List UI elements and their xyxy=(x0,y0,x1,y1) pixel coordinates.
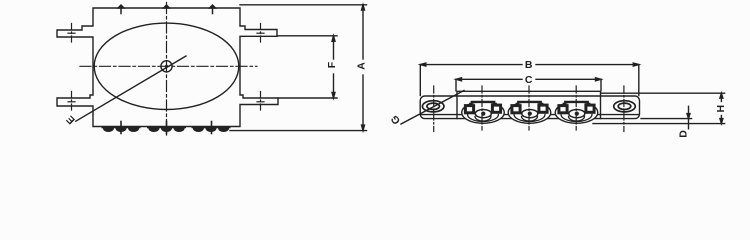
dimension H extension top xyxy=(601,92,725,94)
left mounting hole xyxy=(422,101,444,112)
centerline terminal 2 xyxy=(528,86,530,130)
tab centerline top-left xyxy=(71,24,73,45)
dimension B extension right xyxy=(638,65,640,96)
centerline hole right xyxy=(623,86,625,132)
svg-text:A: A xyxy=(355,62,367,70)
centerline terminal 3 xyxy=(575,86,577,130)
top bump right xyxy=(210,5,216,8)
baseplate inner bottom line xyxy=(422,114,639,116)
terminal 1 xyxy=(462,102,505,124)
leader line G xyxy=(401,91,464,125)
dimension C extension right xyxy=(600,79,602,91)
dimension F line xyxy=(333,36,335,59)
dimension B line xyxy=(420,64,522,66)
svg-text:H: H xyxy=(715,105,727,113)
right mounting hole xyxy=(614,101,636,112)
tab centerline bottom-right xyxy=(260,92,262,113)
svg-text:F: F xyxy=(326,61,338,68)
leader line E xyxy=(76,56,186,121)
dimension F extension top xyxy=(277,35,337,37)
dimension C extension left xyxy=(455,79,457,91)
dimension D line xyxy=(688,106,690,129)
bottom terminal group 1 xyxy=(102,122,141,134)
vertical centerline xyxy=(166,3,168,136)
dimension A extension bottom xyxy=(230,130,367,132)
main circle xyxy=(94,23,239,109)
molded body xyxy=(457,91,601,118)
dimension C line xyxy=(456,78,522,80)
dimension A line xyxy=(362,5,364,59)
dimension B extension left xyxy=(419,65,421,96)
terminal 3 xyxy=(555,102,598,124)
center dot xyxy=(165,65,168,68)
bottom terminal group 3 xyxy=(192,122,231,134)
top bump stub right xyxy=(212,6,214,14)
terminal 2 xyxy=(508,102,551,124)
right view baseplate xyxy=(420,96,639,119)
top bump stub left xyxy=(120,6,122,14)
dimension F extension bottom xyxy=(278,97,337,99)
svg-text:B: B xyxy=(525,59,533,71)
dimension H extension bottom xyxy=(593,123,725,125)
top bump left xyxy=(118,5,124,8)
svg-text:C: C xyxy=(525,74,533,86)
left view body outline xyxy=(57,8,278,127)
dimension H line xyxy=(720,93,722,101)
centerline hole left xyxy=(433,86,435,132)
dimension A extension top xyxy=(240,4,367,6)
horizontal centerline xyxy=(80,65,257,67)
tab centerline bottom-left xyxy=(71,92,73,113)
top bump middle xyxy=(164,5,170,8)
center small circle xyxy=(161,61,172,72)
svg-text:D: D xyxy=(677,130,689,138)
bottom terminal group 2 xyxy=(147,122,186,134)
centerline terminal 1 xyxy=(481,86,483,130)
dimension D extension xyxy=(641,118,692,120)
tab centerline top-right xyxy=(260,24,262,45)
